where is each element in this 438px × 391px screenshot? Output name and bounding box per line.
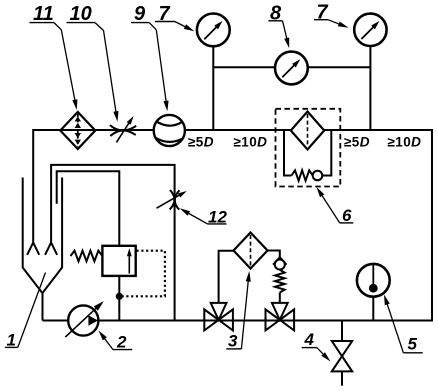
regulator spring <box>71 251 103 262</box>
wire: inner loop A (top y=165, right side x=174.6 with throttle 12) <box>51 165 175 321</box>
wire: regulator outlet to bottom pipe <box>118 276 120 321</box>
svg-text:6: 6 <box>342 206 352 225</box>
filter 6 ball indicator <box>313 171 323 181</box>
wire: loop B (to pressure regulator) <box>57 171 120 246</box>
throttle valve 12 (adjustable restrictor on vertical line) <box>157 190 187 210</box>
flow meter 9 (sight glass, circle with two arcs) <box>154 115 185 146</box>
wire: tank outlet <box>42 292 44 321</box>
svg-text:9: 9 <box>134 3 146 25</box>
label 8 with shelf and leader to gauge 8 <box>268 3 289 49</box>
filter unit 6 dashed enclosure <box>276 109 341 187</box>
regulator pilot line (dotted) with junction dot <box>116 251 165 300</box>
wire: filter 3 to relief valve <box>268 251 280 258</box>
pressure gauge 7 (right) <box>354 14 386 46</box>
three-way valve 3a <box>204 303 233 331</box>
filter/separator 11 (diamond with vertical arrows) <box>60 112 95 149</box>
pipe P2 flared end in tank <box>45 243 57 255</box>
label 10 with shelf and elbow leader to throttle 10 <box>67 3 119 122</box>
wire: bottom pipe (return line) <box>43 320 434 322</box>
label 12 with shelf and leader to throttle 12 <box>180 207 228 226</box>
tank 1 (open reservoir with funnel bottom) <box>23 178 43 294</box>
label 2 with shelf and leader to pump <box>99 331 133 352</box>
svg-text:≥5D: ≥5D <box>188 135 214 150</box>
shut-off valve 4 (vertical) <box>332 321 352 386</box>
throttle valve 10 (adjustable restrictor on main pipe) <box>110 116 136 142</box>
svg-text:10: 10 <box>70 3 92 25</box>
thermometer 5 <box>357 264 390 321</box>
pipe P1 discharge into tank (from main pipe) with flared end <box>32 129 34 243</box>
label 5 with shelf and leader to thermometer 5 <box>384 295 423 354</box>
svg-text:≥10D: ≥10D <box>388 135 422 150</box>
svg-text:1: 1 <box>7 330 16 349</box>
label 4 with shelf and leader to valve 4 <box>302 330 331 361</box>
wire: gauge 7b stem <box>369 46 371 131</box>
svg-text:11: 11 <box>33 3 54 25</box>
wire: right edge vertical <box>431 129 433 322</box>
pressure gauge 8 (middle) <box>275 52 308 85</box>
filter 6 diamond <box>291 112 324 150</box>
svg-text:≥5D: ≥5D <box>344 135 370 150</box>
label 7 (right) with shelf and leader to gauge 7b <box>314 1 349 27</box>
label 11 with shelf and elbow leader to filter 11 <box>30 3 78 110</box>
label 7 (left) with shelf and leader to gauge 7a <box>155 3 194 32</box>
svg-text:≥10D: ≥10D <box>234 135 268 150</box>
wire: gauge 8 connector line <box>213 66 370 68</box>
svg-text:4: 4 <box>304 330 315 349</box>
label 9 with shelf and elbow leader to flow meter 9 <box>131 3 169 111</box>
svg-text:3: 3 <box>228 331 238 350</box>
label 6 with shelf and leader to dashed box <box>317 187 354 225</box>
ball check relief valve (seat, ball, spring) <box>273 257 286 269</box>
wire: valve 3a to filter 3 <box>219 251 234 303</box>
wire: filter 6 bypass loop <box>284 131 292 176</box>
wire: main pipe (top horizontal) <box>33 129 432 131</box>
filter 3 (diamond) <box>234 233 268 269</box>
svg-text:5: 5 <box>408 335 418 354</box>
label 1 with shelf and leader into tank <box>5 273 46 350</box>
pressure gauge 7 (left) <box>197 14 230 47</box>
pressure regulator (box with up arrow, spring, pilot line) <box>102 246 135 276</box>
pump 2 (adjustable, circle with flow triangle and diagonal arrow) <box>65 301 104 337</box>
filter 6 spring <box>292 170 313 180</box>
svg-text:2: 2 <box>116 333 127 352</box>
wire: spring to valve 3b <box>279 293 281 303</box>
label 3 with shelf and leader to filter 3 <box>226 271 251 350</box>
relief valve spring <box>275 270 285 293</box>
three-way valve 3b <box>266 303 295 331</box>
wire: gauge 7a stem <box>212 46 214 130</box>
